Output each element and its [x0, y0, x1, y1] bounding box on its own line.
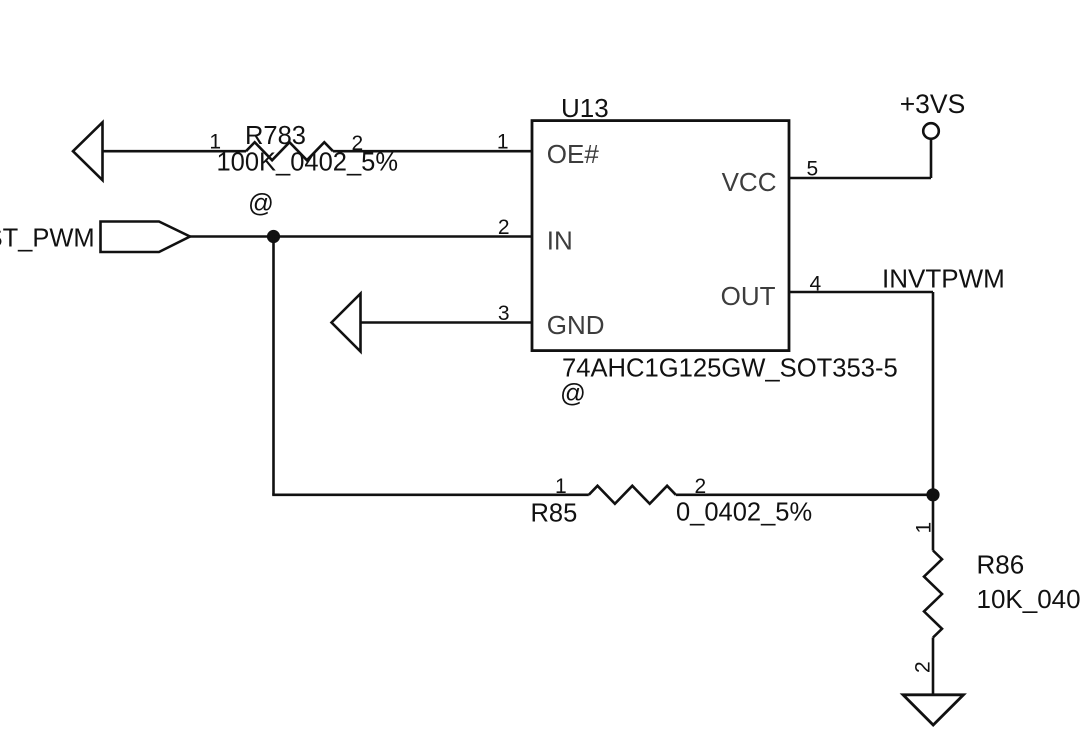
svg-text:5: 5: [807, 158, 819, 181]
svg-text:@: @: [560, 380, 586, 408]
wire: junction to U13 pin 2: [274, 235, 533, 238]
svg-text:2: 2: [498, 216, 510, 239]
svg-text:100K_0402_5%: 100K_0402_5%: [217, 149, 399, 177]
op IC U13 body: [532, 121, 789, 351]
svg-text:TEST_PWM: TEST_PWM: [0, 224, 95, 252]
svg-text:R783: R783: [245, 122, 306, 150]
svg-text:74AHC1G125GW_SOT353-5: 74AHC1G125GW_SOT353-5: [562, 354, 898, 382]
wire: lower rail to R85 pin 1: [272, 493, 589, 496]
port TEST_PWM symbol: [101, 222, 191, 253]
svg-text:4: 4: [810, 273, 822, 296]
svg-text:IN: IN: [547, 225, 573, 255]
svg-text:INVTPWM: INVTPWM: [882, 263, 1005, 293]
wire: flag to R783 pin 1: [103, 150, 247, 153]
svg-text:R85: R85: [531, 500, 578, 528]
wire: U13 pin 5 (VCC) to +3VS stem: [789, 177, 931, 180]
svg-text:1: 1: [497, 131, 509, 154]
node junction dot at port net: [267, 230, 280, 243]
svg-text:3: 3: [498, 302, 510, 325]
svg-text:+3VS: +3VS: [900, 89, 966, 119]
svg-text:10K_0402_5%: 10K_0402_5%: [977, 584, 1080, 614]
svg-text:R86: R86: [977, 549, 1025, 579]
wire: port to junction: [190, 235, 274, 238]
power symbol +3VS circle: [923, 123, 939, 139]
wire: +3VS vertical stem: [930, 139, 933, 178]
wire: flag to U13 pin 3: [361, 321, 533, 324]
wire: R86 pin 2 to ground: [932, 638, 935, 696]
svg-text:OUT: OUT: [721, 281, 776, 311]
wire: INVTPWM vertical down to junction: [932, 292, 935, 495]
wire: R85 pin 2 to junction: [676, 493, 933, 496]
node junction dot INVTPWM/R85/R86: [926, 488, 939, 501]
svg-text:@: @: [248, 190, 274, 218]
resistor R783 zigzag: [246, 142, 333, 160]
net flag arrow (top left, open triangle): [73, 122, 103, 180]
wire: U13 pin 4 (OUT) to INVTPWM net: [789, 291, 933, 294]
resistor R85 zigzag: [589, 486, 676, 504]
svg-text:GND: GND: [547, 310, 605, 340]
resistor R86 vertical zigzag: [924, 551, 942, 638]
svg-text:2: 2: [912, 661, 935, 673]
svg-text:1: 1: [555, 475, 567, 498]
svg-text:0_0402_5%: 0_0402_5%: [676, 499, 812, 527]
wire: junction down to lower rail: [272, 237, 275, 495]
gnd flag arrow (near U13 pin 3): [332, 294, 361, 352]
svg-text:1: 1: [913, 522, 936, 534]
ground symbol: [903, 695, 964, 725]
wire: junction down to R86 pin 1: [932, 495, 935, 551]
wire: R783 pin 2 to U13 pin 1: [333, 150, 532, 153]
svg-text:OE#: OE#: [547, 139, 600, 169]
svg-text:VCC: VCC: [722, 167, 777, 197]
svg-text:U13: U13: [561, 93, 609, 123]
